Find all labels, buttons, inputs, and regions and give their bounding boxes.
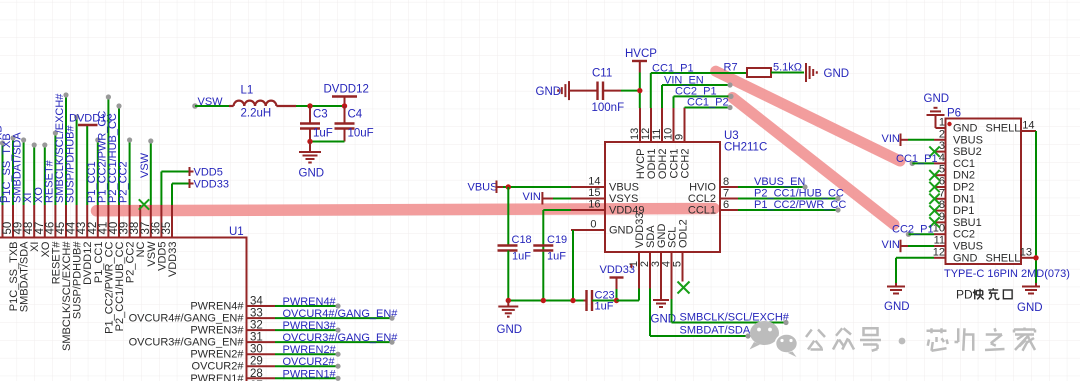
power port VBUS [468,181,572,194]
U1 pin 39 P2_CC2 [118,137,137,283]
U3 designator and value [724,130,767,154]
svg-text:32: 32 [250,320,263,332]
U3 pin 7 CCL2 [688,188,738,206]
svg-text:C18: C18 [512,234,532,246]
IC U3 CH211C outline [605,142,720,252]
svg-text:CC1_P2: CC1_P2 [687,97,729,109]
svg-text:CC1: CC1 [953,158,975,170]
junction node at C3 top [307,103,312,108]
svg-text:4: 4 [939,152,945,164]
no-connect X on P6 pin 3 [929,146,939,156]
svg-text:DVDD12: DVDD12 [324,84,369,96]
svg-text:8: 8 [723,176,729,188]
U1 pin 49 SMBDAT/SDA [12,132,31,313]
svg-text:PWREN2#: PWREN2# [283,344,337,356]
svg-text:CCL2: CCL2 [688,193,716,205]
U1 pin 34 PWREN4# [190,296,340,313]
svg-text:DN1: DN1 [953,193,975,205]
U1 pin 47 XO [33,142,52,257]
svg-text:PWREN1#: PWREN1# [283,368,337,380]
ground under U3 pin3 [651,289,677,326]
svg-text:SMBDAT/SDA: SMBDAT/SDA [12,132,24,203]
svg-text:VDD33: VDD33 [600,264,635,276]
net CC1_P1 at P6 pin4 [896,153,938,166]
wire C3-C4 bottom [307,139,344,144]
svg-text:VBUS: VBUS [609,182,639,194]
net CC1_P2 stub [685,97,733,111]
U1 pin 28 PWREN1# [190,368,340,381]
U1 pin 27 OVCUR1# [192,380,341,381]
svg-text:VSW: VSW [139,152,151,178]
svg-text:30: 30 [250,344,263,356]
U1 pin 33 OVCUR4#/GANG_EN# [129,308,399,325]
svg-text:PWREN3#: PWREN3# [283,320,337,332]
power port VIN at P6 pin2 [882,133,935,146]
svg-text:6: 6 [723,199,729,211]
P6 pin 5 DN2 [934,164,975,182]
power port HVCP [625,48,657,73]
net VIN_EN stub [662,75,733,109]
svg-text:CC1_P1: CC1_P1 [896,153,938,165]
U1 pin 36 VDD5 [150,167,222,271]
ground symbol under rail [497,301,523,337]
svg-text:9: 9 [939,211,945,223]
svg-text:L1: L1 [241,85,254,97]
svg-text:29: 29 [250,356,263,368]
IC U1 outline [0,238,247,381]
svg-text:7: 7 [723,188,729,200]
svg-text:GND: GND [497,324,523,336]
svg-text:100nF: 100nF [592,102,625,114]
svg-text:1: 1 [939,117,945,129]
U1 pin 29 OVCUR2# [192,356,341,373]
net CC2_P1 stub [674,86,734,109]
net VBUS_EN stub [738,176,808,190]
svg-text:31: 31 [250,332,263,344]
P6 pin 12 GND [933,246,1021,264]
P6 pin 14 SHELL [1021,120,1036,132]
svg-text:9: 9 [674,134,686,140]
wire VDD49 to C19 [543,210,571,301]
net SMBCLK/SCL/EXCH# from U3 pin4 [672,252,790,325]
P6 pin 9 SBU1 [934,211,982,229]
U1 pin 50 P1C_SS_TXB [1,133,20,311]
svg-text:GND: GND [953,123,978,135]
ground right of R7 [806,63,849,82]
capacitor C11 100nF [592,68,625,115]
U3 pin 11 ODH2 [651,108,669,179]
inductor L1 2.2uH [229,85,296,120]
P6 port description PD fast-charge [956,288,1012,302]
svg-text:10: 10 [933,223,945,235]
U1 pin 35 VDD33 [161,179,229,277]
P6 pin 13 SHELL [1020,246,1036,258]
U3 pin 9 CCH2 [674,108,692,178]
svg-text:VIN: VIN [882,239,900,251]
P6 pin 4 CC1 [934,152,975,170]
svg-text:U1: U1 [229,226,244,238]
svg-text:1uF: 1uF [595,301,614,313]
highlight stroke CC1 to P6 [716,71,900,161]
capacitor C3 1uF [300,106,333,142]
svg-text:DN2: DN2 [953,170,975,182]
svg-text:SHELL: SHELL [986,123,1021,135]
ground below C3 [299,142,325,180]
svg-text:SBU1: SBU1 [953,217,982,229]
P6 part number [944,268,1070,280]
svg-text:2: 2 [939,128,945,140]
svg-text:5: 5 [939,164,945,176]
svg-text:8: 8 [939,199,945,211]
U1 pin 44 SUSP/PDHUB# [65,114,84,319]
wire VDD33 rail to U3 pin1 [617,289,640,301]
svg-text:PWREN4#: PWREN4# [283,296,337,308]
wire U3 GND pin0 down [572,230,574,301]
watermark text [806,328,1035,351]
svg-text:DP1: DP1 [953,205,974,217]
svg-text:OVCUR3#/GANG_EN#: OVCUR3#/GANG_EN# [283,332,399,344]
svg-text:SBU2: SBU2 [953,146,982,158]
highlight stroke CC2 to P6 [732,98,894,225]
capacitor C4 10uF [335,106,374,142]
svg-text:6: 6 [939,176,945,188]
U3 pin 15 VSYS [571,187,638,205]
svg-text:GND: GND [536,86,562,98]
svg-text:PWREN4#: PWREN4# [190,301,244,313]
P6 pin 10 CC2 [933,223,975,241]
U3 pin 0 GND [571,219,634,237]
svg-text:14: 14 [588,176,600,188]
svg-text:VSYS: VSYS [609,193,638,205]
svg-text:VBUS: VBUS [953,241,983,253]
wire shell pins to ground [1033,131,1038,283]
svg-text:GND: GND [924,93,950,105]
P6 pin 11 VBUS [934,235,983,253]
U1 pin 38 NC [129,205,147,257]
no-connect X on U1 pin 38 [139,199,149,209]
svg-text:CC2_P1: CC2_P1 [892,224,934,236]
ground rail under C18/C19 [506,298,584,303]
svg-text:GND: GND [1017,302,1043,314]
U1 pin 31 OVCUR3#/GANG_EN# [129,332,399,349]
P6 designator [947,108,961,120]
U1 pin 43 DVDD12 [69,113,112,285]
U3 pin 4 SCL [661,227,679,289]
svg-text:TYPE-C 16PIN 2MD(073): TYPE-C 16PIN 2MD(073) [944,268,1070,280]
U3 pin 6 CCL1 [688,199,738,217]
svg-text:CH211C: CH211C [724,142,767,154]
U3 pin 3 GND [650,224,668,289]
svg-text:DP2: DP2 [953,182,974,194]
no-connect X on P6 pin 6 [929,182,939,192]
svg-text:SUSP/PDHUB#: SUSP/PDHUB# [65,124,77,203]
P6 pin 2 VBUS [934,128,983,146]
wire VSW to L1 [195,105,229,107]
svg-text:CCL1: CCL1 [688,205,716,217]
svg-text:1uF: 1uF [547,251,566,263]
svg-text:C11: C11 [592,68,612,80]
svg-text:35: 35 [161,222,173,235]
svg-text:PD: PD [956,288,973,302]
ground left of C11 [536,81,598,100]
net CC1_P1 wire to R7 [651,63,747,109]
U3 pin 13 HVCP [629,108,647,179]
U3 pin 8 HVIO [689,176,738,194]
wire C11 to HVCP node [621,90,640,92]
U3 pin 1 VDD33 [628,213,646,289]
P6 pin 3 SBU2 [934,140,982,158]
no-connect X on P6 pin 7 [929,194,939,204]
svg-text:VDD5: VDD5 [194,167,223,179]
U1 pin 41 P1_CC2/PWR_CC [96,94,115,333]
connector P6 outline [946,119,1022,265]
U1 partial pin 51 wire at image edge [0,125,6,237]
net P1_CC2/PWR_CC stub [738,199,846,213]
svg-text:11: 11 [934,235,945,247]
capacitor C19 1uF [533,234,567,263]
svg-text:HVIO: HVIO [689,182,716,194]
svg-text:GND: GND [609,225,634,237]
U1 pin 40 P2_CC1/HUB_CC [107,103,126,331]
svg-text:5: 5 [672,261,684,267]
wire HVCP node to U3 pin 13 [637,73,642,109]
svg-text:33: 33 [250,308,263,320]
svg-text:11: 11 [651,129,663,140]
svg-text:OVCUR3#/GANG_EN#: OVCUR3#/GANG_EN# [129,337,245,349]
U3 pin 2 SDA [639,225,657,289]
svg-text:P1_CC2/PWR_CC: P1_CC2/PWR_CC [754,199,846,211]
svg-text:GND: GND [953,252,978,264]
svg-text:2.2uH: 2.2uH [241,108,272,120]
svg-text:16: 16 [588,199,600,211]
svg-text:1uF: 1uF [512,251,531,263]
svg-text:C3: C3 [313,109,328,121]
no-connect X on P6 pin 9 [929,217,939,227]
power port VDD33 [600,264,635,303]
svg-text:VBUS_EN: VBUS_EN [754,176,805,188]
svg-text:P6: P6 [947,108,961,120]
svg-text:34: 34 [250,296,263,308]
U1 pin 30 PWREN2# [190,344,340,361]
ground bottom right of P6 [1017,283,1043,314]
svg-text:VBUS: VBUS [468,182,498,194]
svg-text:CC1_P1: CC1_P1 [652,63,694,75]
svg-text:GND: GND [299,168,325,180]
U1 pin 42 P1_CC1 [86,137,105,283]
U3 pin 5 ODL2 [672,219,690,281]
svg-text:OVCUR4#/GANG_EN#: OVCUR4#/GANG_EN# [283,308,399,320]
svg-text:VDD33: VDD33 [194,179,229,191]
svg-text:SHELL: SHELL [986,252,1021,264]
svg-text:PWREN2#: PWREN2# [190,349,244,361]
U1 pin 37 VSW [139,138,158,266]
P6 pin 8 DP1 [934,199,974,217]
power port VIN at VSYS [523,191,572,205]
U3 pin 14 VBUS [571,176,639,194]
no-connect X on P6 pin 8 [929,205,939,215]
svg-text:13: 13 [1020,246,1032,258]
svg-text:P2_CC2: P2_CC2 [118,161,130,203]
P6 pin 1 GND [939,117,1020,135]
svg-text:GND: GND [884,301,910,313]
U3 pin 12 ODH1 [640,108,658,179]
svg-text:C19: C19 [547,234,567,246]
node VSW [192,96,223,109]
wire L1 to C3/C4 [296,105,345,107]
U3 pin 16 VDD49 [571,199,644,217]
svg-text:28: 28 [250,368,263,380]
wire P6 pin12 to ground [896,258,934,283]
svg-text:ODH2: ODH2 [657,149,669,180]
svg-text:14: 14 [1022,120,1034,132]
svg-text:OVCUR2#: OVCUR2# [283,356,336,368]
capacitor C23 1uF [584,290,617,313]
net SMBDAT/SDA from U3 pin2 [650,289,751,339]
U1 pin 32 PWREN3# [190,320,340,337]
P6 pin 6 DP2 [934,176,974,194]
ground above P6 pin1 [924,93,952,128]
svg-text:R7: R7 [724,62,738,74]
power port VIN at P6 pin11 [882,239,935,252]
no-connect X on P6 pin 5 [929,170,939,180]
svg-text:PWREN3#: PWREN3# [190,325,244,337]
svg-text:CC2: CC2 [953,229,975,241]
U1 pin 46 RESET# [43,130,62,284]
power port DVDD12 [324,84,369,109]
P6 pin 7 DN1 [934,187,975,205]
svg-text:GND: GND [824,68,850,80]
ground bottom left of P6 [884,283,910,313]
svg-text:HVCP: HVCP [625,48,657,60]
svg-text:VIN: VIN [523,191,541,203]
svg-text:SMBCLK/SCL/EXCH#: SMBCLK/SCL/EXCH# [680,312,790,324]
U1 pin 45 SMBCLK/SCL/EXCH# [54,92,73,351]
resistor R7 5.1kOhm [724,62,805,78]
svg-text:C4: C4 [348,109,363,121]
net CC2_P1 at P6 pin10 [892,224,934,237]
highlight band net P1_CC2/PWR_CC [97,209,715,211]
no-connect X on U3 pin5 [678,282,690,294]
svg-text:U3: U3 [724,130,739,142]
capacitor C18 1uF [498,187,532,301]
svg-text:7: 7 [939,187,945,199]
svg-text:10uF: 10uF [348,128,374,140]
svg-text:1uF: 1uF [313,128,333,140]
svg-text:SMBDAT/SDA: SMBDAT/SDA [680,325,751,337]
svg-text:OVCUR2#: OVCUR2# [192,361,245,373]
svg-text:15: 15 [588,187,600,199]
svg-text:PWREN1#: PWREN1# [190,373,244,381]
watermark wechat logo [750,321,798,357]
U3 pin 10 CCH1 [663,108,681,178]
svg-text:12: 12 [933,246,945,258]
U1 pin 48 XI [22,142,41,252]
svg-text:VIN: VIN [882,133,900,145]
svg-text:CCH2: CCH2 [680,149,692,179]
svg-text:P2_CC1/HUB_CC: P2_CC1/HUB_CC [754,188,844,200]
svg-text:VDD33: VDD33 [167,242,179,277]
svg-text:OVCUR4#/GANG_EN#: OVCUR4#/GANG_EN# [129,313,245,325]
net P2_CC1/HUB_CC stub [738,188,844,202]
svg-text:0: 0 [590,219,596,231]
svg-text:VBUS: VBUS [953,134,983,146]
svg-text:3: 3 [939,140,945,152]
U1 designator [229,226,244,238]
svg-text:ODL2: ODL2 [678,219,690,248]
